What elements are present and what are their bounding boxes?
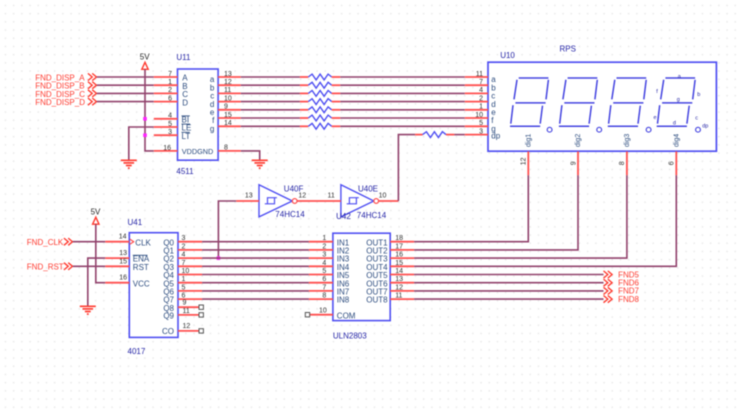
pin 3 dp [465,128,501,140]
pin 12 CO [162,323,203,336]
pin 13 [236,193,259,201]
wire [340,92,465,94]
pin 7 IN7 [309,284,350,296]
svg-text:e: e [654,115,657,121]
pin 3 LT [154,129,191,141]
svg-text:10: 10 [224,95,232,102]
pin 10 d [210,95,241,108]
svg-text:10: 10 [475,112,483,119]
display digit 3 segments [608,78,651,132]
svg-text:11: 11 [224,87,231,94]
svg-text:CLK: CLK [135,238,151,247]
wire [97,92,154,94]
pin 6 dig4 [669,134,681,176]
svg-text:15: 15 [224,112,232,119]
pin 11 Q9 [163,308,203,320]
pin 5 Q6 [163,284,202,296]
svg-text:3: 3 [182,235,186,242]
pin 18 OUT1 [366,235,414,247]
svg-text:3: 3 [322,252,326,259]
pin 8 dig3 [619,134,631,176]
svg-text:13: 13 [119,250,127,257]
svg-text:Q9: Q9 [163,312,174,321]
pin 10 Q4 [163,268,202,280]
svg-text:3: 3 [479,128,483,135]
wire [202,274,309,276]
svg-text:U41: U41 [128,218,143,227]
counter U41 box [129,233,178,338]
svg-text:11: 11 [183,308,190,315]
wire ENA to ground [88,258,106,306]
svg-text:8: 8 [322,293,326,300]
resistor R8 [415,134,423,136]
svg-text:U11: U11 [176,53,191,62]
svg-text:1: 1 [182,276,186,283]
svg-text:16: 16 [395,252,403,259]
pin 5 g [465,120,496,133]
pin 15 OUT4 [366,260,414,272]
pin 10 [379,193,399,201]
wire [340,76,465,78]
pin 15 f [212,112,241,125]
svg-text:13: 13 [245,193,253,200]
svg-text:4: 4 [479,87,483,94]
svg-text:dig3: dig3 [624,134,631,147]
svg-text:5: 5 [479,120,483,127]
svg-text:11: 11 [476,71,483,78]
resistor R7 body [308,123,331,129]
resistor R4 body [308,99,331,105]
wire [202,241,309,243]
pin 2 d [465,95,496,108]
wire [340,109,465,111]
wire [414,298,603,300]
pin 13 a [210,71,241,84]
svg-text:FND8: FND8 [618,295,639,304]
pin 1 Q5 [163,276,202,288]
wire [73,241,106,243]
svg-text:ULN2803: ULN2803 [333,332,367,341]
svg-text:9: 9 [224,104,228,111]
wire [97,101,154,103]
svg-text:16: 16 [119,275,127,282]
wire [454,134,464,136]
port FND7 [604,287,640,296]
svg-text:14: 14 [119,234,127,241]
svg-text:4511: 4511 [176,167,194,176]
pin 14 g [210,120,241,133]
pin 15 RST [105,258,149,272]
svg-text:4017: 4017 [128,347,146,356]
svg-text:2: 2 [322,243,326,250]
pin 5 IN5 [309,268,350,280]
display digit 2 segments [559,78,602,132]
svg-text:8: 8 [619,161,626,165]
svg-text:LT: LT [182,132,191,141]
wire [241,109,300,111]
wire [202,249,309,251]
pin 1 B [154,79,188,91]
display U10 box [488,62,716,151]
svg-text:CO: CO [162,327,174,336]
wire LE to ground [129,127,154,160]
pin 4 BI [154,113,190,125]
port FND8 [604,295,640,304]
pin 2 C [154,87,189,99]
display digit 4 segments [657,78,701,132]
svg-text:4: 4 [182,252,186,259]
driver U42 box [333,233,390,320]
digit4 segment labels [654,74,709,130]
svg-text:2: 2 [479,95,483,102]
svg-text:dig2: dig2 [575,134,582,147]
op-amp U40F (74HC14 inverter) [259,185,305,220]
svg-text:RPS: RPS [560,45,576,54]
svg-text:FND_RST: FND_RST [27,263,64,272]
wire [414,290,603,292]
wire 5V rail to VDD [145,69,154,151]
ground G3 [80,306,96,314]
port FND_RST [27,263,73,272]
svg-text:dp: dp [491,132,500,141]
svg-text:U40E: U40E [358,185,378,194]
port FND_DISP_A [35,73,96,82]
wire [241,101,300,103]
svg-text:14: 14 [395,268,403,275]
svg-text:dig4: dig4 [674,134,681,147]
svg-text:7: 7 [182,260,186,267]
pin 6 Q7 [163,293,202,305]
pin 3 IN3 [309,252,350,264]
svg-text:9: 9 [183,299,187,306]
resistor R1 body [308,74,331,80]
svg-text:1: 1 [322,235,326,242]
ground G1 [121,160,137,168]
wire [202,257,309,259]
svg-text:OUT8: OUT8 [366,296,388,305]
svg-text:6: 6 [168,95,172,102]
svg-text:74HC14: 74HC14 [357,211,387,220]
pin 11 OUT8 [366,293,414,305]
svg-text:15: 15 [395,260,403,267]
BCD decoder U11 box [178,69,219,160]
wire [414,175,578,250]
resistor R5 body [308,107,331,113]
port FND6 [604,279,640,288]
wire [414,175,676,266]
wire [97,76,154,78]
pin 14 CLK [105,234,151,248]
svg-text:FND_CLK: FND_CLK [27,238,64,247]
wire 5V rail to VCC [96,224,106,283]
pin 2 IN2 [309,243,350,255]
power 5V (U41) [91,207,101,224]
svg-text:14: 14 [224,120,232,127]
svg-text:VDD: VDD [182,147,197,156]
svg-text:4: 4 [322,260,326,267]
svg-text:18: 18 [395,235,403,242]
pin 1 IN1 [309,235,350,247]
pin 9 Q8 [163,299,203,312]
svg-text:FND_DISP_D: FND_DISP_D [35,98,85,107]
pin 1 e [465,104,497,117]
resistor R2 [300,84,308,86]
pin 11 a [465,71,497,84]
pin 12 OUT7 [366,284,414,296]
svg-text:g: g [677,97,680,103]
pin 12 dig1 [521,134,533,176]
pin 2 Q1 [163,243,202,255]
resistor R3 body [308,91,331,97]
pin 9 dig2 [570,134,582,176]
wire [340,84,465,86]
pin 4 c [465,87,496,100]
svg-text:D: D [182,98,188,107]
pin 17 OUT2 [366,243,414,255]
pin 9 e [210,104,241,117]
pin 7 A [154,71,189,83]
svg-text:13: 13 [395,276,403,283]
svg-text:13: 13 [224,71,232,78]
svg-text:7: 7 [168,71,172,78]
wire [414,175,627,258]
svg-text:dp: dp [702,124,708,130]
resistor R1 [300,76,308,78]
svg-text:5: 5 [322,268,326,275]
wire [414,274,603,276]
resistor R5 [300,109,308,111]
wire [340,117,465,119]
svg-text:12: 12 [224,79,232,86]
pin 14 OUT5 [366,268,414,280]
pin 10 COM [305,307,356,320]
wire U40F input from Q2 net [218,201,236,258]
display digit 1 segments [510,78,552,132]
power 5V (U11) [140,52,150,69]
pin 12 b [210,79,241,92]
resistor R6 body [308,115,331,121]
svg-text:d: d [673,120,676,126]
svg-text:IN8: IN8 [337,296,350,305]
resistor R4 [300,101,308,103]
junction BI/5V [143,117,147,121]
wire [340,101,465,103]
svg-text:RST: RST [133,263,149,272]
svg-text:9: 9 [570,161,577,165]
wire [414,282,603,284]
pin 7 Q3 [163,260,202,272]
svg-text:COM: COM [337,311,356,320]
svg-text:5V: 5V [91,207,101,216]
pin 16 VDD [154,145,197,156]
svg-text:1: 1 [168,79,172,86]
port FND_DISP_D [35,98,96,107]
resistor R6 [300,117,308,119]
pin 6 D [154,95,189,107]
pin 3 Q0 [163,235,202,247]
pin 13 ENA [105,250,150,264]
svg-text:4: 4 [168,113,172,120]
pin 13 OUT6 [366,276,414,288]
resistor R2 body [308,82,331,88]
ground G2 [252,160,268,168]
svg-text:6: 6 [669,161,676,165]
svg-text:10: 10 [379,193,387,200]
svg-text:VCC: VCC [133,279,150,288]
wire [73,265,106,267]
port FND_DISP_B [35,82,96,91]
port FND_CLK [27,238,73,247]
wire [241,125,300,127]
pin 4 IN4 [309,260,350,272]
junction Q2/inverter [217,256,221,260]
svg-text:5: 5 [182,284,186,291]
svg-text:U42: U42 [336,212,351,221]
wire [202,290,309,292]
wire [241,76,300,78]
pin 12 [297,193,318,201]
wire [202,265,309,267]
svg-text:10: 10 [182,268,190,275]
svg-text:11: 11 [395,293,402,300]
svg-text:1: 1 [479,104,483,111]
pin 8 IN8 [309,293,350,305]
op-amp U40E (74HC14 inverter) [336,185,387,222]
svg-text:8: 8 [224,145,228,152]
svg-text:17: 17 [395,243,403,250]
svg-text:11: 11 [328,193,335,200]
svg-text:10: 10 [319,307,327,314]
svg-text:12: 12 [183,323,191,330]
wire [241,117,300,119]
svg-text:g: g [210,125,214,134]
wire [241,92,300,94]
pin 16 OUT3 [366,252,414,264]
junction LT/5V [143,133,147,137]
svg-text:12: 12 [395,284,403,291]
svg-text:5: 5 [168,121,172,128]
pin 8 GND [197,145,241,156]
pin 16 VCC [105,275,150,289]
port FND_DISP_C [35,90,96,99]
svg-text:7: 7 [322,284,326,291]
svg-text:GND: GND [197,147,213,156]
svg-text:16: 16 [163,145,171,152]
pin 4 Q2 [163,252,202,264]
svg-text:5V: 5V [140,52,150,61]
wire [414,175,528,241]
wire [241,84,300,86]
svg-text:b: b [697,92,700,98]
pin 10 f [465,112,495,125]
resistor R8 body [423,132,446,138]
svg-text:2: 2 [182,243,186,250]
svg-text:3: 3 [168,129,172,136]
svg-text:12: 12 [521,157,528,165]
pin 7 b [465,79,497,92]
svg-text:12: 12 [298,193,306,200]
pin 5 LE [154,121,191,133]
wire pin8 to ground [241,151,260,160]
pin 6 IN6 [309,276,350,288]
wire [97,84,154,86]
wire [340,125,465,127]
pin 11 [318,193,341,201]
svg-text:74HC14: 74HC14 [275,210,305,219]
svg-text:15: 15 [119,258,127,265]
wire U40E output up to dp resistor [398,135,415,201]
resistor R7 [300,125,308,127]
svg-text:7: 7 [479,79,483,86]
resistor R3 [300,92,308,94]
pin 11 c [210,87,241,100]
svg-text:6: 6 [322,276,326,283]
svg-text:2: 2 [168,87,172,94]
svg-text:dig1: dig1 [526,134,533,147]
svg-text:c: c [695,115,698,121]
wire [202,282,309,284]
port FND5 [604,270,640,279]
svg-text:U10: U10 [500,51,515,60]
wire [202,298,309,300]
